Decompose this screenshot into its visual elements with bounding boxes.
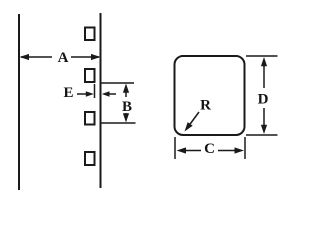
sprocket hole 3	[85, 112, 95, 125]
svg-text:C: C	[204, 141, 215, 157]
svg-text:D: D	[258, 92, 269, 108]
sprocket hole 1	[85, 28, 95, 41]
dimension C	[175, 137, 245, 159]
svg-text:A: A	[58, 50, 69, 66]
dimension A	[20, 54, 101, 60]
dimension E	[77, 84, 116, 98]
left edge line	[18, 14, 20, 190]
dimension B	[102, 83, 136, 123]
svg-text:E: E	[63, 85, 73, 101]
svg-text:B: B	[122, 99, 132, 115]
rounded hole outline	[175, 56, 245, 135]
svg-text:R: R	[200, 98, 211, 114]
dimension D	[246, 56, 278, 135]
radius leader R	[185, 112, 200, 132]
sprocket hole 2	[85, 69, 95, 82]
tape edge line	[100, 13, 102, 188]
sprocket hole 4	[85, 152, 95, 165]
